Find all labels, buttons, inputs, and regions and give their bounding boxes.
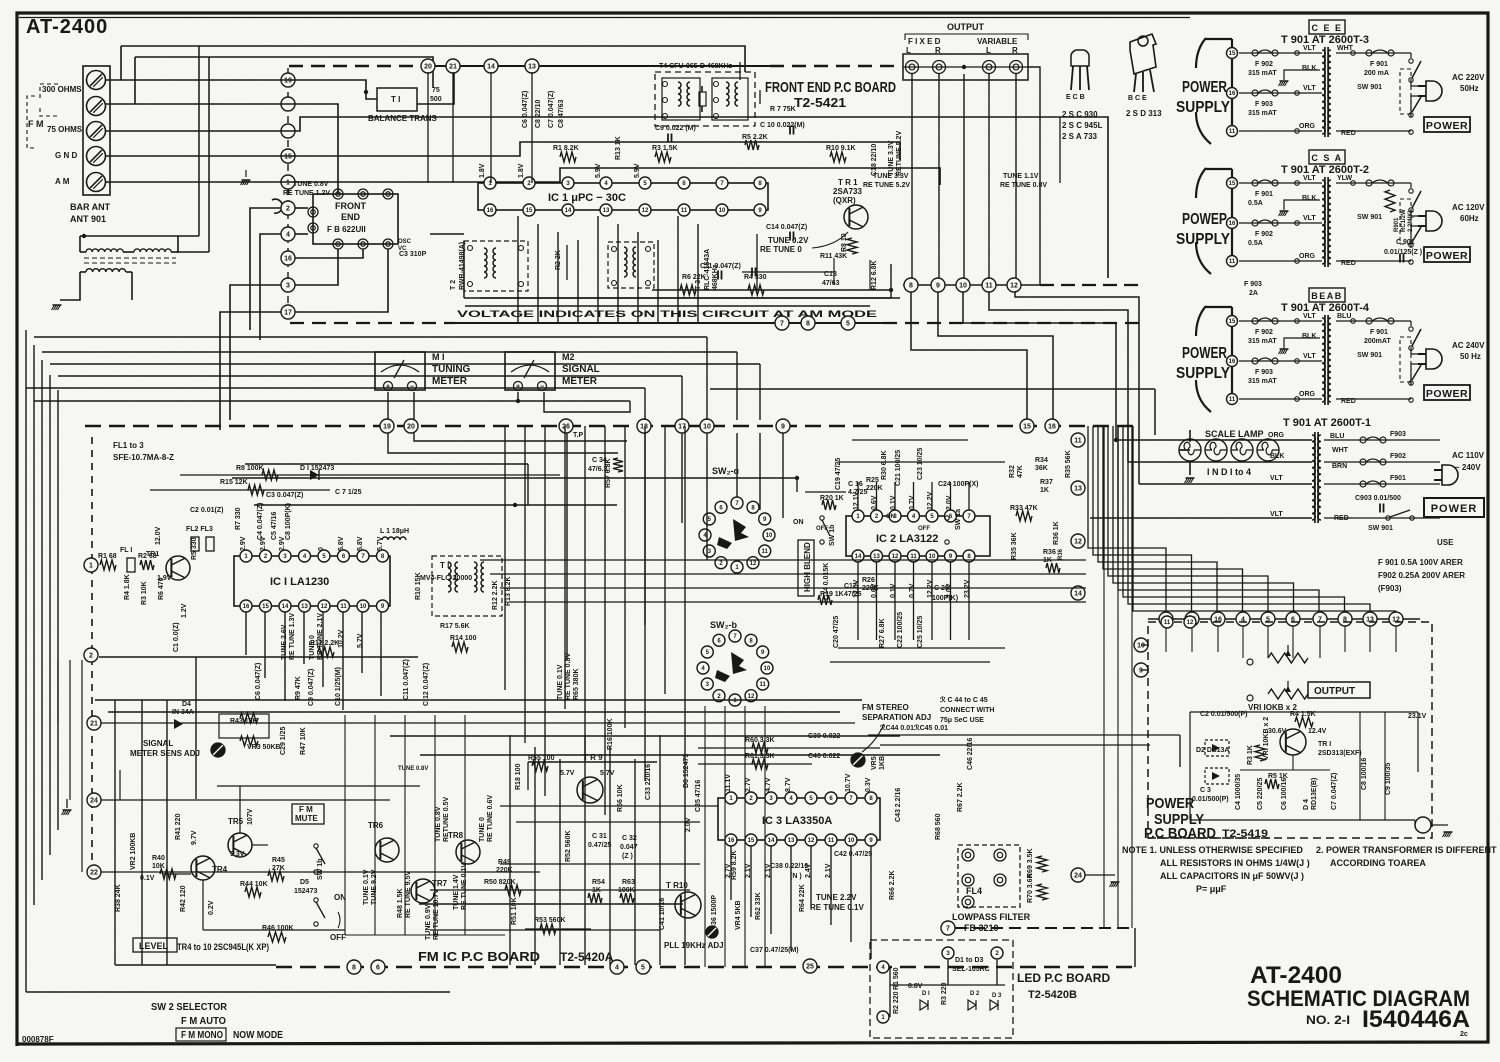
svg-text:F901: F901 xyxy=(1390,475,1406,482)
svg-text:F 902: F 902 xyxy=(1255,231,1273,238)
svg-text:FL I: FL I xyxy=(120,547,132,554)
svg-text:METER: METER xyxy=(432,376,468,387)
svg-text:200mAT: 200mAT xyxy=(1364,338,1391,345)
svg-text:11: 11 xyxy=(762,549,769,555)
svg-text:C17: C17 xyxy=(844,583,857,590)
svg-text:VR5: VR5 xyxy=(871,756,878,770)
svg-text:R26: R26 xyxy=(862,577,875,584)
svg-text:METER SENS ADJ: METER SENS ADJ xyxy=(130,749,200,758)
svg-text:16: 16 xyxy=(1229,221,1236,227)
svg-text:2ᴄ: 2ᴄ xyxy=(1460,1031,1468,1038)
svg-text:C3 0.047(Z): C3 0.047(Z) xyxy=(266,492,303,499)
svg-text:C18 22/10: C18 22/10 xyxy=(871,144,878,176)
svg-text:I540446A: I540446A xyxy=(1362,1006,1470,1033)
svg-text:R35 36K: R35 36K xyxy=(1011,532,1018,560)
svg-text:50Hz: 50Hz xyxy=(1460,84,1479,93)
svg-text:RD13E(B): RD13E(B) xyxy=(1311,778,1318,810)
svg-text:47K: 47K xyxy=(1017,465,1024,478)
svg-text:R11 43K: R11 43K xyxy=(820,253,847,260)
svg-text:RE TUNE 9.5V: RE TUNE 9.5V xyxy=(405,871,412,918)
svg-text:1.2V: 1.2V xyxy=(181,603,188,618)
svg-text:18: 18 xyxy=(640,424,648,431)
svg-text:C 7 1/25: C 7 1/25 xyxy=(335,489,362,496)
svg-text:FM IC P.C BOARD: FM IC P.C BOARD xyxy=(418,949,540,964)
svg-text:SW 2 SELECTOR: SW 2 SELECTOR xyxy=(151,1002,228,1013)
svg-text:15: 15 xyxy=(748,838,755,844)
svg-text:BLU: BLU xyxy=(1330,433,1344,440)
svg-text:SW 901: SW 901 xyxy=(1357,84,1382,91)
svg-text:F 901: F 901 xyxy=(1370,61,1388,68)
svg-text:R14 100: R14 100 xyxy=(450,635,477,642)
svg-text:11: 11 xyxy=(1229,129,1236,135)
svg-text:R36 1K: R36 1K xyxy=(1053,521,1060,545)
svg-text:SUPPLY: SUPPLY xyxy=(1176,231,1230,248)
svg-text:R9 47K: R9 47K xyxy=(295,676,302,700)
svg-text:(F903): (F903) xyxy=(1378,584,1402,593)
svg-text:C 3: C 3 xyxy=(1200,787,1211,794)
svg-text:10.7V: 10.7V xyxy=(845,773,852,792)
svg-text:27K: 27K xyxy=(272,865,285,872)
svg-text:POWER: POWER xyxy=(1182,79,1227,96)
svg-text:11: 11 xyxy=(1164,620,1171,626)
svg-text:R37: R37 xyxy=(1040,479,1053,486)
svg-text:ORG: ORG xyxy=(1299,123,1316,130)
svg-text:14: 14 xyxy=(1074,591,1082,598)
svg-text:MUTE: MUTE xyxy=(295,814,318,823)
svg-text:5: 5 xyxy=(641,965,645,972)
svg-text:26: 26 xyxy=(562,424,570,431)
svg-text:T I: T I xyxy=(391,95,400,104)
svg-text:T 901 AT 2600T-1: T 901 AT 2600T-1 xyxy=(1283,417,1371,429)
svg-text:T 901 AT 2600T-4: T 901 AT 2600T-4 xyxy=(1281,302,1370,314)
svg-text:WHT: WHT xyxy=(1332,447,1349,454)
svg-text:5.7V: 5.7V xyxy=(560,770,575,777)
svg-text:5.8V: 5.8V xyxy=(338,536,345,551)
svg-text:R10 9.1K: R10 9.1K xyxy=(826,145,856,152)
svg-text:11.1V: 11.1V xyxy=(725,774,732,792)
svg-text:152473: 152473 xyxy=(294,888,317,895)
svg-text:2. POWER TRANSFORMER IS DIFFE: 2. POWER TRANSFORMER IS DIFFERENT xyxy=(1316,845,1497,855)
svg-text:TUNE 0.8V: TUNE 0.8V xyxy=(435,806,442,842)
svg-text:C6 0.047(Z): C6 0.047(Z) xyxy=(522,91,529,128)
svg-text:T R 1: T R 1 xyxy=(838,178,858,187)
svg-text:R8 100K: R8 100K xyxy=(236,465,264,472)
svg-text:T 901 AT 2600T-3: T 901 AT 2600T-3 xyxy=(1281,34,1369,46)
svg-text:USE: USE xyxy=(1437,538,1454,547)
svg-text:10: 10 xyxy=(360,604,367,610)
svg-text:C40 0.022: C40 0.022 xyxy=(808,753,840,760)
svg-text:R55 100: R55 100 xyxy=(528,755,555,762)
svg-text:C E E: C E E xyxy=(1311,23,1342,33)
svg-text:BLU: BLU xyxy=(1337,313,1351,320)
svg-text:C36 1500P: C36 1500P xyxy=(711,895,718,930)
svg-text:POWER: POWER xyxy=(1431,503,1478,515)
svg-text:C9 0.022 (M): C9 0.022 (M) xyxy=(655,125,696,132)
svg-text:2: 2 xyxy=(89,653,93,660)
svg-text:R44 10K: R44 10K xyxy=(240,881,268,888)
svg-text:AT-2400: AT-2400 xyxy=(1250,962,1342,989)
svg-text:IC I LA1230: IC I LA1230 xyxy=(270,576,329,588)
svg-text:F 901: F 901 xyxy=(1370,329,1388,336)
svg-text:VR2 100KB: VR2 100KB xyxy=(130,833,137,870)
svg-text:TUNE 0.8V: TUNE 0.8V xyxy=(293,181,329,188)
svg-text:C11 0.047(Z): C11 0.047(Z) xyxy=(403,659,410,700)
svg-text:C8 47/63: C8 47/63 xyxy=(558,99,565,128)
svg-text:21: 21 xyxy=(90,721,98,728)
svg-text:R38 24K: R38 24K xyxy=(115,884,122,912)
svg-text:SW₂-ɑ: SW₂-ɑ xyxy=(712,466,739,476)
svg-text:C38 0.22/16: C38 0.22/16 xyxy=(770,863,808,870)
svg-text:R47 10K: R47 10K xyxy=(300,727,307,755)
svg-text:7: 7 xyxy=(780,321,784,328)
svg-text:R66 2.2K: R66 2.2K xyxy=(889,870,896,900)
svg-text:R70 3.6K: R70 3.6K xyxy=(1027,873,1034,903)
svg-text:50 Hz: 50 Hz xyxy=(1460,352,1481,361)
svg-text:AC 240V: AC 240V xyxy=(1452,341,1485,350)
svg-text:R32: R32 xyxy=(1009,465,1016,478)
svg-text:F M MONO: F M MONO xyxy=(181,1030,223,1041)
svg-text:0.01/500(P): 0.01/500(P) xyxy=(1192,796,1229,803)
svg-text:NO. 2-I: NO. 2-I xyxy=(1306,1013,1350,1027)
svg-text:R36: R36 xyxy=(1043,549,1056,556)
svg-text:13: 13 xyxy=(301,604,308,610)
svg-text:ON: ON xyxy=(793,519,804,526)
svg-text:C3 310P: C3 310P xyxy=(399,251,427,258)
svg-text:C4 1000/35: C4 1000/35 xyxy=(1235,774,1242,810)
svg-text:D I 152473: D I 152473 xyxy=(300,465,334,472)
svg-text:R8 10: R8 10 xyxy=(841,233,848,252)
svg-text:ORG: ORG xyxy=(1268,432,1285,439)
svg-text:13: 13 xyxy=(528,64,536,71)
svg-text:6: 6 xyxy=(376,965,380,972)
svg-text:11: 11 xyxy=(1229,397,1236,403)
svg-text:L: L xyxy=(906,46,911,55)
svg-text:TUNE 0.8V: TUNE 0.8V xyxy=(398,766,428,772)
svg-text:R54: R54 xyxy=(592,879,605,886)
svg-text:R4 330: R4 330 xyxy=(744,274,767,281)
svg-text:C5 220/25: C5 220/25 xyxy=(1257,778,1264,810)
svg-text:−: − xyxy=(410,383,414,390)
svg-text:TR6: TR6 xyxy=(368,821,384,830)
svg-text:0.1V: 0.1V xyxy=(890,583,897,598)
svg-text:315 mAT: 315 mAT xyxy=(1248,378,1277,385)
svg-text:T4 CFU-065-D 468KHz: T4 CFU-065-D 468KHz xyxy=(659,63,733,70)
svg-text:POWER: POWER xyxy=(1426,250,1468,262)
svg-text:POWEP: POWEP xyxy=(1182,211,1227,228)
svg-text:ON: ON xyxy=(886,514,895,520)
svg-text:VARIABLE: VARIABLE xyxy=(977,37,1018,46)
svg-text:C8 100/16: C8 100/16 xyxy=(1361,758,1368,790)
svg-text:R49: R49 xyxy=(498,859,511,866)
svg-text:SW 1a: SW 1a xyxy=(955,509,962,530)
svg-text:9: 9 xyxy=(781,424,785,431)
svg-text:11: 11 xyxy=(1074,438,1082,445)
svg-text:VC: VC xyxy=(398,246,407,252)
svg-text:R18 100: R18 100 xyxy=(515,763,522,790)
svg-text:9.3V: 9.3V xyxy=(230,851,245,858)
svg-text:ACCORDING TOAREA: ACCORDING TOAREA xyxy=(1330,858,1426,868)
svg-text:F902: F902 xyxy=(1390,453,1406,460)
svg-text:SFE-10.7MA-8-Z: SFE-10.7MA-8-Z xyxy=(113,453,174,462)
svg-text:VR4 5KB: VR4 5KB xyxy=(735,900,742,930)
svg-text:F 903: F 903 xyxy=(1255,369,1273,376)
svg-text:12: 12 xyxy=(321,604,328,610)
svg-text:R15 12K: R15 12K xyxy=(220,479,248,486)
svg-text:R5 330: R5 330 xyxy=(191,537,198,560)
svg-text:8.7V: 8.7V xyxy=(785,777,792,792)
svg-text:12: 12 xyxy=(750,561,757,567)
svg-text:C11 0.047(Z): C11 0.047(Z) xyxy=(700,263,741,270)
svg-text:TUNE 9.2V: TUNE 9.2V xyxy=(371,869,378,905)
svg-text:107V: 107V xyxy=(247,808,254,825)
svg-text:METER: METER xyxy=(562,376,598,387)
svg-text:C 901: C 901 xyxy=(1396,239,1415,246)
svg-text:11: 11 xyxy=(985,283,993,290)
svg-text:TUNE 0.2V: TUNE 0.2V xyxy=(768,236,809,245)
svg-text:M2: M2 xyxy=(562,352,575,362)
svg-text:24: 24 xyxy=(90,798,98,805)
svg-text:RE TUNE 0: RE TUNE 0 xyxy=(760,245,802,254)
svg-text:D5: D5 xyxy=(300,879,309,886)
svg-text:10: 10 xyxy=(766,533,773,539)
svg-text:16: 16 xyxy=(1048,424,1056,431)
svg-text:24: 24 xyxy=(1074,873,1082,880)
svg-text:12: 12 xyxy=(892,554,899,560)
svg-text:F 901 0.5A 100V ARER: F 901 0.5A 100V ARER xyxy=(1378,558,1463,567)
svg-text:C 16: C 16 xyxy=(848,481,863,488)
svg-text:R30 6.8K: R30 6.8K xyxy=(881,450,888,480)
svg-text:R1 68: R1 68 xyxy=(98,553,117,560)
svg-text:TR I: TR I xyxy=(1318,741,1331,748)
svg-text:10: 10 xyxy=(703,424,711,431)
svg-text:2.0V: 2.0V xyxy=(946,495,953,510)
svg-text:T2-5420B: T2-5420B xyxy=(1028,989,1077,1001)
svg-text:1K: 1K xyxy=(1040,487,1049,494)
svg-text:R35 56K: R35 56K xyxy=(1065,450,1072,478)
svg-text:60Hz: 60Hz xyxy=(1460,214,1479,223)
svg-text:SW 1b: SW 1b xyxy=(317,859,324,880)
svg-text:R901: R901 xyxy=(1394,217,1400,232)
svg-text:TUNE 0: TUNE 0 xyxy=(479,817,486,842)
svg-text:23.1V: 23.1V xyxy=(1408,713,1427,720)
svg-text:200 mA: 200 mA xyxy=(1364,70,1389,77)
svg-text:5.9V: 5.9V xyxy=(595,163,602,178)
svg-text:TUNE 0.1V: TUNE 0.1V xyxy=(363,869,370,905)
svg-text:T.P: T.P xyxy=(573,432,583,439)
svg-text:R46 100K: R46 100K xyxy=(262,925,294,932)
svg-text:NOTE 1. UNLESS OTHERWISE SPE: NOTE 1. UNLESS OTHERWISE SPECIFIED xyxy=(1122,845,1303,855)
svg-text:0.47/25: 0.47/25 xyxy=(588,842,611,849)
svg-text:0.3V: 0.3V xyxy=(865,777,872,792)
svg-text:75 OHMS: 75 OHMS xyxy=(47,125,83,134)
svg-text:C4 0.047(Z): C4 0.047(Z) xyxy=(257,503,264,540)
svg-text:R41 220: R41 220 xyxy=(175,813,182,840)
svg-text:1.8V: 1.8V xyxy=(479,163,486,178)
svg-text:47/63: 47/63 xyxy=(822,280,840,287)
svg-text:17: 17 xyxy=(284,310,292,317)
svg-text:PLL 19KHz ADJ: PLL 19KHz ADJ xyxy=(664,941,724,950)
svg-text:RETUNE 0.5V: RETUNE 0.5V xyxy=(443,797,450,842)
svg-text:F902 0.25A 200V ARER: F902 0.25A 200V ARER xyxy=(1378,571,1465,580)
svg-text:R4 1.8K: R4 1.8K xyxy=(124,574,131,600)
svg-text:2 S A 733: 2 S A 733 xyxy=(1062,132,1098,141)
svg-text:19: 19 xyxy=(284,78,292,85)
svg-text:2.9V: 2.9V xyxy=(240,536,247,551)
svg-text:R13 1K: R13 1K xyxy=(615,136,622,160)
svg-text:C25 10/25: C25 10/25 xyxy=(917,616,924,648)
svg-text:21: 21 xyxy=(449,64,457,71)
svg-text:R: R xyxy=(1012,46,1018,55)
svg-text:IC 2 LA3122: IC 2 LA3122 xyxy=(876,533,938,545)
svg-text:YLW: YLW xyxy=(1337,175,1353,182)
svg-text:F 902: F 902 xyxy=(1255,61,1273,68)
svg-text:SCALE LAMP: SCALE LAMP xyxy=(1205,429,1264,439)
svg-text:VLT: VLT xyxy=(1303,353,1316,360)
svg-text:AC 220V: AC 220V xyxy=(1452,73,1485,82)
svg-text:12.0V: 12.0V xyxy=(155,526,162,545)
svg-text:0.5A: 0.5A xyxy=(1248,240,1263,247)
svg-text:R45: R45 xyxy=(272,857,285,864)
svg-text:0.5A: 0.5A xyxy=(1248,200,1263,207)
svg-text:30.6V: 30.6V xyxy=(1268,728,1287,735)
svg-text:R63: R63 xyxy=(622,879,635,886)
svg-text:R2 220: R2 220 xyxy=(893,991,900,1014)
svg-text:2: 2 xyxy=(286,206,290,213)
svg-text:75μ SeC USE: 75μ SeC USE xyxy=(940,717,984,724)
svg-text:R3 1K: R3 1K xyxy=(1247,745,1254,765)
svg-text:R40: R40 xyxy=(152,855,165,862)
svg-text:C 31: C 31 xyxy=(592,833,607,840)
svg-text:0.1V: 0.1V xyxy=(890,495,897,510)
svg-text:END: END xyxy=(341,212,361,222)
svg-text:10: 10 xyxy=(959,283,967,290)
svg-text:OSC: OSC xyxy=(398,239,412,245)
svg-text:POWER: POWER xyxy=(1426,120,1468,132)
svg-text:ℛC44 0.01ℛC45 0.01: ℛC44 0.01ℛC45 0.01 xyxy=(880,724,948,732)
svg-text:VLT: VLT xyxy=(1270,475,1283,482)
svg-text:C42 0.47/25: C42 0.47/25 xyxy=(834,851,872,858)
svg-text:47/25: 47/25 xyxy=(844,591,862,598)
svg-text:T2-5421: T2-5421 xyxy=(794,95,846,110)
svg-text:F 903: F 903 xyxy=(1255,101,1273,108)
svg-text:SUPPLY: SUPPLY xyxy=(1176,365,1230,382)
svg-text:R: R xyxy=(935,46,941,55)
svg-text:E C B: E C B xyxy=(1066,94,1085,101)
svg-text:2SD313(EXF): 2SD313(EXF) xyxy=(1318,750,1362,757)
svg-text:T I: T I xyxy=(440,561,449,570)
svg-text:HIGH BLEND: HIGH BLEND xyxy=(803,542,812,592)
svg-text:13: 13 xyxy=(788,838,795,844)
svg-text:C2 0.01(Z): C2 0.01(Z) xyxy=(190,507,223,514)
svg-text:F B 622UII: F B 622UII xyxy=(327,225,366,234)
svg-text:9: 9 xyxy=(1139,668,1143,675)
svg-text:TUNE 0.1V: TUNE 0.1V xyxy=(557,664,564,700)
svg-text:14: 14 xyxy=(282,604,289,610)
svg-text:POWER: POWER xyxy=(1426,388,1468,400)
svg-text:ON: ON xyxy=(334,893,346,902)
svg-text:10K: 10K xyxy=(152,863,165,870)
svg-text:B C E: B C E xyxy=(1128,95,1147,102)
svg-text:L 1 18μH: L 1 18μH xyxy=(380,528,409,535)
svg-text:(QXR): (QXR) xyxy=(833,196,856,205)
svg-text:FL4: FL4 xyxy=(966,886,982,896)
svg-text:15: 15 xyxy=(526,208,533,214)
svg-text:R42 120: R42 120 xyxy=(180,885,187,912)
svg-text:C33 220/16: C33 220/16 xyxy=(645,764,652,800)
svg-text:BLK: BLK xyxy=(1302,195,1316,202)
svg-text:SIGNAL: SIGNAL xyxy=(562,364,600,375)
svg-text:R3 10K: R3 10K xyxy=(141,581,148,605)
svg-text:10: 10 xyxy=(848,838,855,844)
svg-text:ANT 901: ANT 901 xyxy=(70,214,106,224)
svg-text:15: 15 xyxy=(262,604,269,610)
svg-text:VLT: VLT xyxy=(1303,175,1316,182)
svg-text:R67 2.2K: R67 2.2K xyxy=(957,782,964,812)
svg-text:C20 47/25: C20 47/25 xyxy=(833,616,840,648)
svg-text:C22 100/25: C22 100/25 xyxy=(897,612,904,648)
svg-text:11: 11 xyxy=(828,838,835,844)
svg-text:R52 560K: R52 560K xyxy=(565,830,572,862)
svg-text:12: 12 xyxy=(1187,620,1194,626)
svg-text:D4: D4 xyxy=(182,701,191,708)
svg-text:R51 10K: R51 10K xyxy=(511,897,518,925)
svg-text:AC 120V: AC 120V xyxy=(1452,203,1485,212)
svg-text:OFF: OFF xyxy=(918,526,930,532)
svg-text:315 mAT: 315 mAT xyxy=(1248,338,1277,345)
svg-text:ORG: ORG xyxy=(1299,253,1316,260)
svg-text:C43 2.2/16: C43 2.2/16 xyxy=(895,788,902,822)
svg-text:IC 3 LA3350A: IC 3 LA3350A xyxy=(762,815,832,827)
svg-text:−: − xyxy=(540,383,544,390)
svg-text:SW₂-b: SW₂-b xyxy=(710,620,737,630)
svg-text:ℛ C 44 to C 45: ℛ C 44 to C 45 xyxy=(940,696,988,704)
svg-text:+: + xyxy=(516,384,520,391)
svg-text:5.7V: 5.7V xyxy=(357,633,364,648)
svg-text:SIGNAL: SIGNAL xyxy=(143,739,173,748)
svg-text:RE TUNE 0.8V: RE TUNE 0.8V xyxy=(565,653,572,700)
svg-text:SW 901: SW 901 xyxy=(1357,352,1382,359)
svg-text:R60 3.3K: R60 3.3K xyxy=(745,737,775,744)
svg-text:4.7V: 4.7V xyxy=(765,777,772,792)
svg-text:16: 16 xyxy=(487,208,494,214)
svg-text:BLK: BLK xyxy=(1302,65,1316,72)
svg-text:R7 330: R7 330 xyxy=(235,507,242,530)
svg-text:100P(K): 100P(K) xyxy=(932,595,958,602)
svg-text:~ 240V: ~ 240V xyxy=(1455,463,1481,472)
svg-text:4: 4 xyxy=(615,965,619,972)
svg-text:TR4 to 10 2SC945L(K XP): TR4 to 10 2SC945L(K XP) xyxy=(177,942,269,952)
svg-text:MV4-FLC-20000: MV4-FLC-20000 xyxy=(420,575,472,582)
svg-text:SEL-105RC: SEL-105RC xyxy=(952,966,990,973)
svg-text:G N D: G N D xyxy=(55,151,77,160)
svg-text:C29 1/25: C29 1/25 xyxy=(280,726,287,755)
svg-text:1: 1 xyxy=(89,563,93,570)
svg-text:R68 560: R68 560 xyxy=(935,813,942,840)
svg-text:C13: C13 xyxy=(824,271,837,278)
svg-text:POWER: POWER xyxy=(1146,795,1194,812)
svg-text:TUNE 3.3V: TUNE 3.3V xyxy=(888,140,895,176)
svg-text:5.8V: 5.8V xyxy=(357,536,364,551)
svg-text:TR4: TR4 xyxy=(212,865,228,874)
svg-text:C21 100/25: C21 100/25 xyxy=(895,450,902,486)
svg-text:25: 25 xyxy=(806,964,814,971)
svg-text:RE TUNE 0.1V: RE TUNE 0.1V xyxy=(810,903,864,912)
svg-text:C9 100/35: C9 100/35 xyxy=(1385,763,1392,795)
svg-text:7: 7 xyxy=(946,926,950,933)
svg-text:F 903: F 903 xyxy=(1244,281,1262,288)
svg-text:9: 9 xyxy=(936,283,940,290)
svg-text:BAR ANT: BAR ANT xyxy=(70,202,111,212)
